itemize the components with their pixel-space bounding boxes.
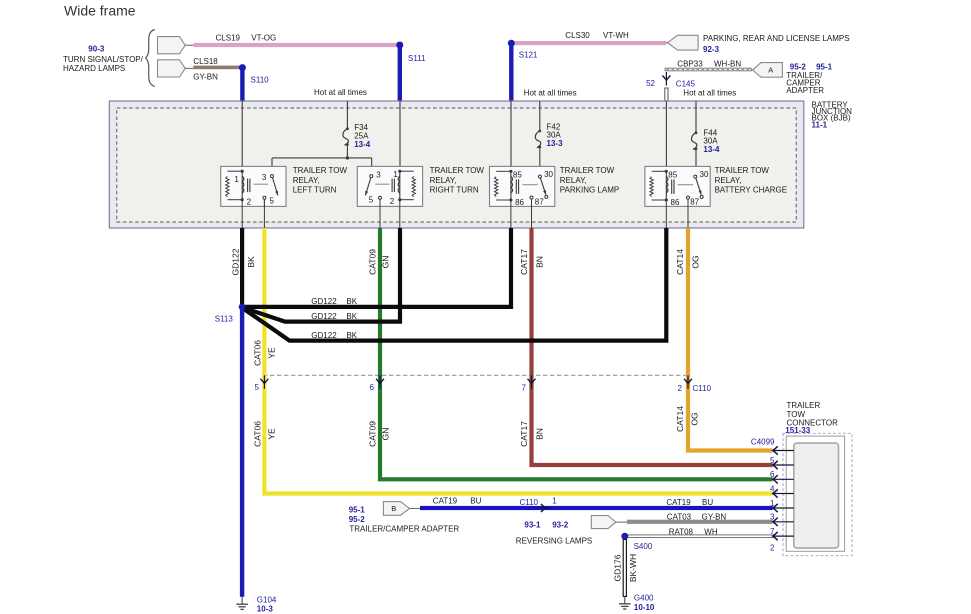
svg-text:5: 5 xyxy=(369,195,374,204)
svg-text:CLS30: CLS30 xyxy=(565,31,590,40)
svg-text:CAT14: CAT14 xyxy=(675,406,685,432)
svg-text:CAT17: CAT17 xyxy=(519,421,529,447)
svg-text:1: 1 xyxy=(234,175,239,184)
svg-text:92-3: 92-3 xyxy=(703,45,720,54)
svg-text:C110: C110 xyxy=(519,498,538,507)
svg-text:TRAILER TOW: TRAILER TOW xyxy=(560,166,615,175)
svg-text:Wide frame: Wide frame xyxy=(64,3,136,19)
svg-text:5: 5 xyxy=(770,456,775,465)
svg-text:WH-BN: WH-BN xyxy=(714,60,741,69)
svg-text:S110: S110 xyxy=(251,76,270,85)
svg-text:90-3: 90-3 xyxy=(88,44,105,53)
svg-text:CAT17: CAT17 xyxy=(519,249,529,275)
svg-text:3: 3 xyxy=(376,171,381,180)
svg-text:CAT14: CAT14 xyxy=(675,249,685,275)
svg-text:HAZARD LAMPS: HAZARD LAMPS xyxy=(63,64,125,73)
svg-text:S113: S113 xyxy=(215,315,234,324)
svg-text:7: 7 xyxy=(522,384,527,393)
svg-text:S400: S400 xyxy=(634,542,653,551)
svg-text:Hot at all times: Hot at all times xyxy=(524,88,577,97)
svg-text:5: 5 xyxy=(255,383,260,392)
svg-text:TOW: TOW xyxy=(787,410,806,419)
svg-text:YE: YE xyxy=(267,347,277,359)
svg-text:PARKING LAMP: PARKING LAMP xyxy=(560,185,619,194)
svg-text:151-33: 151-33 xyxy=(785,426,810,435)
svg-text:BN: BN xyxy=(535,256,545,268)
svg-text:C145: C145 xyxy=(676,80,696,89)
svg-text:GD122: GD122 xyxy=(311,312,337,321)
svg-text:87: 87 xyxy=(690,198,699,207)
svg-text:95-2: 95-2 xyxy=(349,515,366,524)
svg-text:1: 1 xyxy=(552,497,557,506)
svg-text:95-1: 95-1 xyxy=(349,506,366,515)
svg-text:Hot at all times: Hot at all times xyxy=(314,88,367,97)
svg-text:CAT06: CAT06 xyxy=(253,421,263,447)
svg-text:BK-WH: BK-WH xyxy=(628,554,638,582)
svg-text:GN: GN xyxy=(381,428,391,441)
svg-text:30: 30 xyxy=(700,170,709,179)
svg-text:BK: BK xyxy=(246,256,256,268)
svg-text:3: 3 xyxy=(262,173,267,182)
svg-text:TURN SIGNAL/STOP/: TURN SIGNAL/STOP/ xyxy=(63,55,144,64)
svg-text:5: 5 xyxy=(269,197,274,206)
svg-text:G104: G104 xyxy=(257,595,277,604)
svg-text:YE: YE xyxy=(267,428,277,440)
svg-text:BN: BN xyxy=(535,428,545,440)
svg-text:2: 2 xyxy=(247,198,252,207)
svg-text:10-10: 10-10 xyxy=(634,603,655,612)
svg-text:86: 86 xyxy=(671,198,680,207)
svg-text:1: 1 xyxy=(393,170,398,179)
svg-text:CAT06: CAT06 xyxy=(253,340,263,366)
svg-text:RELAY,: RELAY, xyxy=(293,176,320,185)
svg-text:2: 2 xyxy=(390,197,395,206)
svg-text:C110: C110 xyxy=(693,384,712,393)
svg-text:7: 7 xyxy=(770,527,775,536)
svg-text:C4099: C4099 xyxy=(751,438,775,447)
svg-text:3: 3 xyxy=(770,513,775,522)
svg-text:GD122: GD122 xyxy=(311,297,337,306)
svg-text:B: B xyxy=(391,504,396,513)
svg-text:RELAY,: RELAY, xyxy=(430,176,457,185)
svg-text:RIGHT TURN: RIGHT TURN xyxy=(430,185,479,194)
svg-text:2: 2 xyxy=(678,384,683,393)
svg-text:30: 30 xyxy=(544,170,553,179)
svg-text:CAT09: CAT09 xyxy=(368,421,378,447)
svg-text:BU: BU xyxy=(470,496,481,505)
svg-text:4: 4 xyxy=(770,484,775,493)
svg-text:85: 85 xyxy=(668,171,677,180)
svg-text:TRAILER TOW: TRAILER TOW xyxy=(715,166,770,175)
svg-text:VT-WH: VT-WH xyxy=(603,31,629,40)
svg-text:REVERSING LAMPS: REVERSING LAMPS xyxy=(516,536,592,545)
svg-text:86: 86 xyxy=(515,198,524,207)
svg-text:PARKING, REAR AND LICENSE LAMP: PARKING, REAR AND LICENSE LAMPS xyxy=(703,34,850,43)
svg-text:G400: G400 xyxy=(634,594,654,603)
svg-text:TRAILER: TRAILER xyxy=(787,401,821,410)
svg-text:GD122: GD122 xyxy=(231,248,241,275)
svg-text:87: 87 xyxy=(535,198,544,207)
svg-text:CLS18: CLS18 xyxy=(193,57,218,66)
svg-text:GN: GN xyxy=(381,256,391,269)
svg-text:2: 2 xyxy=(770,543,775,552)
svg-text:TRAILER TOW: TRAILER TOW xyxy=(293,166,348,175)
svg-text:TRAILER TOW: TRAILER TOW xyxy=(430,166,485,175)
svg-text:GY-BN: GY-BN xyxy=(193,72,218,81)
svg-text:Hot at all times: Hot at all times xyxy=(683,88,736,97)
svg-text:6: 6 xyxy=(370,383,375,392)
svg-text:A: A xyxy=(768,66,773,75)
svg-text:93-1: 93-1 xyxy=(524,520,541,529)
svg-text:CAT03: CAT03 xyxy=(667,512,692,521)
svg-text:BK: BK xyxy=(346,312,357,321)
svg-text:10-3: 10-3 xyxy=(257,604,274,613)
svg-text:BK: BK xyxy=(346,297,357,306)
svg-text:GD176: GD176 xyxy=(613,554,623,581)
svg-text:GY-BN: GY-BN xyxy=(702,512,727,521)
svg-text:S121: S121 xyxy=(519,51,538,60)
svg-text:RELAY,: RELAY, xyxy=(560,176,587,185)
svg-text:S111: S111 xyxy=(408,54,426,63)
svg-text:BATTERY CHARGE: BATTERY CHARGE xyxy=(715,185,787,194)
svg-text:1: 1 xyxy=(770,499,775,508)
svg-text:LEFT TURN: LEFT TURN xyxy=(293,185,337,194)
svg-text:TRAILER/CAMPER ADAPTER: TRAILER/CAMPER ADAPTER xyxy=(349,524,459,533)
svg-text:13-4: 13-4 xyxy=(703,145,720,154)
svg-text:13-3: 13-3 xyxy=(547,139,564,148)
svg-text:OG: OG xyxy=(691,255,701,268)
svg-text:CAT19: CAT19 xyxy=(433,496,458,505)
svg-text:CBP33: CBP33 xyxy=(677,60,703,69)
svg-text:OG: OG xyxy=(690,412,700,425)
svg-text:13-4: 13-4 xyxy=(354,140,371,149)
svg-text:BU: BU xyxy=(702,498,713,507)
svg-text:11-1: 11-1 xyxy=(812,120,828,129)
svg-text:RELAY,: RELAY, xyxy=(715,176,742,185)
svg-text:6: 6 xyxy=(770,470,775,479)
svg-text:VT-OG: VT-OG xyxy=(251,33,276,42)
svg-text:BK: BK xyxy=(346,331,357,340)
svg-text:CLS19: CLS19 xyxy=(216,33,241,42)
svg-text:85: 85 xyxy=(513,171,522,180)
svg-text:GD122: GD122 xyxy=(311,331,337,340)
svg-text:CAT09: CAT09 xyxy=(368,249,378,275)
svg-text:ADAPTER: ADAPTER xyxy=(786,86,824,95)
svg-text:52: 52 xyxy=(646,79,655,88)
svg-text:93-2: 93-2 xyxy=(552,520,569,529)
svg-text:CAT19: CAT19 xyxy=(666,498,691,507)
